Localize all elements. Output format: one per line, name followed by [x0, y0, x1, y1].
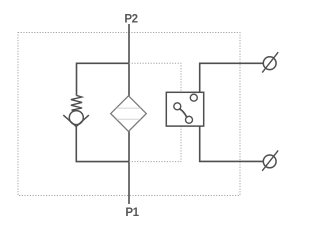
wire: indicator to upper test point	[200, 63, 264, 92]
wire: main line from P2 to filter top	[128, 24, 130, 96]
clogging indicator switch box	[166, 92, 203, 126]
test point upper (slash)	[262, 52, 278, 72]
svg-text:P1: P1	[125, 207, 139, 219]
test point upper (circle)	[263, 57, 276, 70]
wire: indicator to lower test point	[200, 126, 264, 161]
switch lever	[180, 109, 187, 117]
switch contact circle bottom	[186, 116, 193, 123]
wire: bypass branch, upper	[77, 63, 130, 95]
test point lower (slash)	[262, 150, 278, 170]
test point lower (circle)	[263, 155, 276, 168]
check ball of bypass valve	[69, 111, 83, 125]
filter mesh line upper	[117, 107, 141, 109]
pilot line (dotted) lower	[129, 127, 181, 162]
filter mesh line lower	[117, 118, 140, 120]
enclosure (dashed envelope)	[18, 33, 240, 196]
spring of bypass valve	[71, 95, 82, 111]
wire: main line from filter bottom to P1	[128, 131, 130, 204]
wire: bypass branch, lower	[76, 126, 129, 161]
svg-text:P2: P2	[124, 14, 137, 26]
filter element (diamond)	[111, 96, 147, 132]
switch contact circle middle left	[174, 103, 181, 110]
switch contact circle upper right	[190, 94, 197, 101]
valve seat	[63, 115, 89, 126]
pilot line (dotted) upper	[129, 63, 181, 91]
